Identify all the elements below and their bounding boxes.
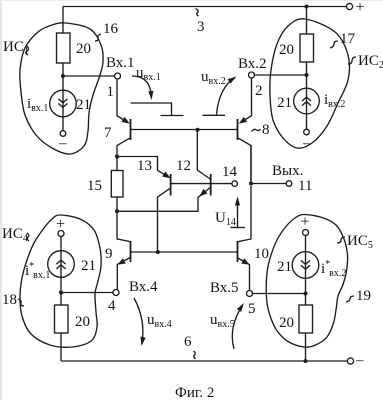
wire: plus terminal down to resistor xyxy=(60,237,62,306)
svg-text:20: 20 xyxy=(76,41,91,57)
wire: node to Vh1 terminal xyxy=(63,75,115,77)
u_in5 label xyxy=(210,312,235,330)
junction bottom rail IS5 xyxy=(304,359,308,363)
wire: resistor to bottom rail xyxy=(60,333,62,361)
junction base bus / Q12 collector xyxy=(196,128,200,132)
transistor Q13 (pnp) xyxy=(137,158,172,252)
svg-text:5: 5 xyxy=(248,301,256,317)
svg-text:4: 4 xyxy=(108,298,116,314)
resistor 20 (IS1) xyxy=(57,33,92,63)
svg-text:12: 12 xyxy=(176,158,191,174)
resistor 20 (IS2) xyxy=(279,34,314,62)
svg-text:11: 11 xyxy=(298,178,312,194)
svg-text:ИС4: ИС4 xyxy=(2,226,28,244)
svg-text:Фиг. 2: Фиг. 2 xyxy=(175,385,214,400)
u_in5 arrow xyxy=(232,302,246,349)
svg-text:Вых.: Вых. xyxy=(272,163,303,179)
u_in2 arrow xyxy=(217,74,238,114)
svg-text:Вх.1: Вх.1 xyxy=(106,55,135,71)
label IS2 xyxy=(348,53,383,71)
junction IS5 node xyxy=(304,292,308,296)
input terminal Vh.5 node 5 xyxy=(210,280,256,317)
current source block IS4 outline (node 18) xyxy=(20,215,101,347)
terminal + (positive supply) xyxy=(346,0,364,16)
svg-text:uвх.2: uвх.2 xyxy=(201,69,226,87)
svg-text:8: 8 xyxy=(262,122,270,138)
svg-text:ИС1: ИС1 xyxy=(3,39,29,57)
svg-text:+: + xyxy=(356,0,365,16)
junction IS2 node xyxy=(305,73,309,77)
label IS4 xyxy=(2,226,29,244)
svg-text:18: 18 xyxy=(2,292,17,308)
label i_in2 xyxy=(324,92,345,110)
junction output node xyxy=(249,182,253,186)
current source block IS5 outline (node 19) xyxy=(266,214,347,347)
svg-text:20: 20 xyxy=(75,314,90,330)
svg-text:1: 1 xyxy=(107,84,115,100)
output terminal node 11 xyxy=(272,163,312,194)
terminal + of IS5 xyxy=(301,214,310,236)
wire: node to Vh5 terminal xyxy=(253,293,306,295)
terminal 14 xyxy=(222,164,238,186)
wire: node to Vh2 terminal xyxy=(255,74,307,76)
svg-text:16: 16 xyxy=(103,21,119,37)
junction node A (13 emitter tap) xyxy=(115,155,119,159)
resistor 20 (IS5) xyxy=(279,305,313,333)
svg-text:i*вх.2: i*вх.2 xyxy=(321,259,346,279)
input terminal Vh.1 node 1 xyxy=(106,55,135,100)
svg-text:20: 20 xyxy=(279,315,294,331)
wire: resistor to node xyxy=(306,62,308,75)
svg-text:Вх.5: Вх.5 xyxy=(210,280,239,296)
svg-text:uвх.1: uвх.1 xyxy=(136,65,161,83)
wire: resistor 15 to Q9 collector xyxy=(117,197,131,242)
node 3 label xyxy=(197,19,205,35)
label IS5 xyxy=(337,233,373,251)
svg-text:uвх.5: uвх.5 xyxy=(210,312,235,330)
svg-text:–: – xyxy=(302,136,311,152)
current source block IS2 outline (node 17) xyxy=(270,19,350,148)
svg-text:21: 21 xyxy=(277,259,292,275)
svg-text:6: 6 xyxy=(184,334,192,350)
input terminal Vh.2 node 2 xyxy=(238,56,267,99)
svg-text:17: 17 xyxy=(340,31,356,47)
wire: node B to Q12 emitter xyxy=(117,187,210,211)
svg-text:–: – xyxy=(58,136,67,152)
svg-text:7: 7 xyxy=(104,125,112,141)
svg-text:2: 2 xyxy=(255,83,263,99)
u_in1 step waveform xyxy=(131,103,184,116)
current source 21 (IS5, down) xyxy=(277,252,319,279)
svg-text:ИС5: ИС5 xyxy=(347,233,373,251)
arrow Q12 emitter xyxy=(197,189,207,199)
label i*_in1 xyxy=(25,261,50,281)
transistor Q7 (pnp) xyxy=(104,79,131,171)
svg-text:Вх.4: Вх.4 xyxy=(129,279,158,295)
wire: output node to terminal 11 xyxy=(251,183,286,185)
svg-text:i*вх.1: i*вх.1 xyxy=(25,261,50,281)
svg-text:U14: U14 xyxy=(215,210,236,228)
terminal + of IS4 xyxy=(56,216,65,237)
wire: node A to Q13 emitter xyxy=(117,157,169,178)
transistor Q10 (npn) xyxy=(238,186,270,291)
wire: rail into IS2 xyxy=(306,7,308,35)
svg-text:3: 3 xyxy=(197,19,205,35)
svg-text:iвх.1: iвх.1 xyxy=(27,96,48,114)
svg-text:Вх.2: Вх.2 xyxy=(238,56,267,72)
wire: plus terminal down to resistor xyxy=(305,236,307,306)
wire: resistor to node xyxy=(62,63,64,76)
wire: base bus Q7-Q8 xyxy=(131,129,237,131)
wire: right rail Q8 collector segment xyxy=(250,146,252,184)
wire: base line Q13-Q12 to terminal 14 xyxy=(171,183,232,185)
terminal - (negative supply) xyxy=(347,353,364,369)
u_in4 arrow xyxy=(134,298,146,346)
transistor Q12 (pnp) xyxy=(176,130,211,196)
svg-text:21: 21 xyxy=(277,95,292,111)
resistor 20 (IS4) xyxy=(55,305,91,333)
junction IS1 node xyxy=(61,74,65,78)
U14 voltage arrow xyxy=(215,197,245,229)
u_in2 label xyxy=(201,69,226,87)
current source block IS1 outline (node 16) xyxy=(20,23,103,154)
svg-text:19: 19 xyxy=(356,288,371,304)
wire: resistor to bottom rail xyxy=(305,333,307,361)
node 6 label xyxy=(184,334,192,350)
svg-text:21: 21 xyxy=(76,97,91,113)
terminal - of IS2 xyxy=(302,129,311,151)
wire: top supply rail node 3 xyxy=(63,7,347,17)
wire: node to Vh4 terminal xyxy=(61,292,113,294)
svg-text:20: 20 xyxy=(279,42,294,58)
current source 21 (IS2, up) xyxy=(277,88,319,114)
label i_in1 xyxy=(27,96,48,114)
terminal - of IS1 xyxy=(58,131,67,152)
label IS1 xyxy=(3,39,29,57)
wire: node through source to minus terminal xyxy=(62,76,64,131)
svg-text:uвх.4: uвх.4 xyxy=(147,312,172,330)
wire: rail into IS1 xyxy=(62,7,64,34)
wire: base bus Q9-Q10 xyxy=(131,251,237,253)
junction node B (12 emitter tap) xyxy=(115,209,119,213)
u_in2 waveform bar xyxy=(203,114,226,116)
label 17 with leader xyxy=(330,31,356,48)
junction base bus / Q13 collector xyxy=(156,250,160,254)
label 19 with leader xyxy=(346,288,371,304)
u_in1 label xyxy=(136,65,161,83)
input terminal Vh.4 node 4 xyxy=(108,279,158,314)
svg-text:14: 14 xyxy=(222,164,238,180)
svg-text:ИС2: ИС2 xyxy=(358,53,383,71)
svg-text:10: 10 xyxy=(254,246,269,262)
label 16 with leader xyxy=(95,21,119,41)
svg-text:–: – xyxy=(355,353,364,369)
wire: node through source to minus xyxy=(306,75,308,129)
junction IS4 node xyxy=(59,291,63,295)
wire: bottom supply rail node 6 xyxy=(61,351,348,361)
resistor 15 xyxy=(87,171,123,198)
svg-text:9: 9 xyxy=(105,246,113,262)
label 18 with leader xyxy=(2,292,24,308)
u_in4 label xyxy=(147,312,172,330)
junction top rail IS2 xyxy=(305,5,309,9)
transistor Q9 (npn) xyxy=(105,241,131,290)
transistor Q8 (pnp) xyxy=(237,78,269,181)
svg-text:15: 15 xyxy=(87,178,102,194)
current source 21 (IS1, down) xyxy=(50,90,91,117)
caption xyxy=(175,385,214,400)
svg-text:13: 13 xyxy=(137,158,152,174)
label i*_in2 xyxy=(321,259,346,279)
u_in1 arrow xyxy=(132,76,154,100)
svg-text:+: + xyxy=(301,214,310,231)
svg-text:21: 21 xyxy=(81,258,96,274)
current source 21 (IS4, up) xyxy=(48,251,96,278)
